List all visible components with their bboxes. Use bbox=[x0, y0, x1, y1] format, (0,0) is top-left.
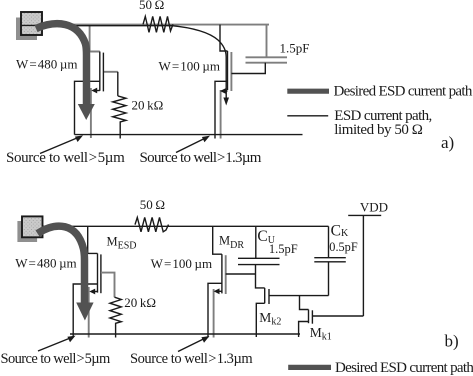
svg-text:W = 480 µm: W = 480 µm bbox=[16, 57, 77, 72]
svg-text:1.5pF: 1.5pF bbox=[269, 242, 298, 256]
svg-text:Desired ESD current path: Desired ESD current path bbox=[334, 84, 473, 100]
svg-text:W = 100 µm: W = 100 µm bbox=[159, 59, 220, 74]
svg-text:50 Ω: 50 Ω bbox=[140, 197, 165, 212]
svg-text:Source to well > 5µm: Source to well > 5µm bbox=[6, 150, 125, 166]
svg-text:MESD: MESD bbox=[107, 234, 137, 251]
svg-text:b): b) bbox=[445, 332, 459, 351]
svg-text:50 Ω: 50 Ω bbox=[139, 0, 164, 12]
svg-text:limited by 50 Ω: limited by 50 Ω bbox=[334, 122, 422, 138]
svg-text:a): a) bbox=[441, 133, 454, 152]
svg-text:1.5pF: 1.5pF bbox=[280, 41, 310, 56]
svg-text:Mk1: Mk1 bbox=[310, 325, 332, 343]
svg-text:VDD: VDD bbox=[360, 200, 388, 215]
svg-text:MDR: MDR bbox=[219, 234, 244, 251]
svg-text:20 kΩ: 20 kΩ bbox=[132, 98, 164, 113]
svg-text:Source to well > 5µm: Source to well > 5µm bbox=[1, 351, 112, 367]
svg-text:Source to well > 1.3µm: Source to well > 1.3µm bbox=[130, 351, 253, 367]
svg-text:W = 480 µm: W = 480 µm bbox=[15, 256, 76, 271]
svg-text:Desired ESD current path: Desired ESD current path bbox=[335, 360, 473, 376]
svg-text:W = 100 µm: W = 100 µm bbox=[151, 256, 212, 271]
svg-text:CK: CK bbox=[331, 223, 349, 240]
svg-text:20 kΩ: 20 kΩ bbox=[124, 295, 156, 310]
svg-text:0.5pF: 0.5pF bbox=[329, 240, 358, 254]
svg-text:Source to well > 1.3µm: Source to well > 1.3µm bbox=[140, 150, 262, 166]
svg-text:Mk2: Mk2 bbox=[259, 310, 281, 328]
